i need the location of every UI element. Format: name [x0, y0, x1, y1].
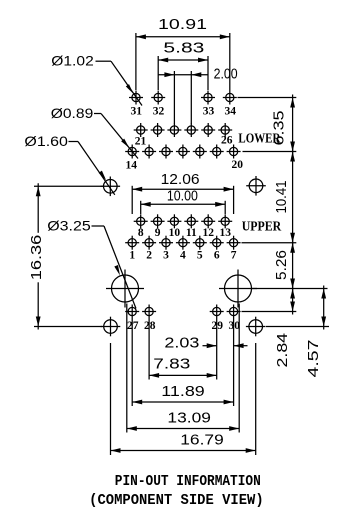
- svg-text:Ø3.25: Ø3.25: [47, 219, 91, 234]
- pin 7 label: [231, 250, 237, 262]
- mounting hole right Ø3.25: [219, 270, 257, 308]
- svg-text:27: 27: [127, 320, 139, 332]
- leader Ø0.89 to pin 14: [94, 114, 138, 159]
- pin 3 (upper row): [159, 236, 173, 250]
- callout Ø1.60 text: [24, 134, 68, 149]
- svg-text:(COMPONENT SIDE VIEW): (COMPONENT SIDE VIEW): [89, 493, 264, 509]
- pin 11 label: [186, 227, 197, 239]
- extension line from pin 30: [242, 311, 297, 313]
- dimension 4.57 (mounting hole to lower side hole): [306, 286, 326, 378]
- svg-text:11.89: 11.89: [161, 384, 205, 400]
- extension line from right mounting hole center: [252, 288, 328, 290]
- pin 30 (LED hole Ø1.02): [227, 305, 241, 319]
- svg-text:14: 14: [125, 160, 137, 172]
- extension line from right mounting hole: [238, 304, 240, 433]
- svg-text:3: 3: [163, 250, 169, 262]
- pin 21 (lower row): [134, 123, 148, 137]
- pin 31 label: [131, 106, 143, 118]
- svg-text:6: 6: [214, 250, 220, 262]
- pin 4 (upper row): [176, 236, 190, 250]
- pin 34 (LED hole Ø1.02): [223, 91, 237, 105]
- svg-text:4: 4: [180, 250, 186, 262]
- pin 28 (LED hole Ø1.02): [142, 305, 156, 319]
- dimension 10.00 (pin8-pin13): [141, 189, 226, 215]
- svg-text:20: 20: [231, 159, 243, 171]
- pin 23 (lower row): [167, 123, 181, 137]
- svg-text:21: 21: [135, 135, 147, 147]
- pin 8 label: [138, 227, 144, 239]
- pin 33 label: [203, 106, 215, 118]
- svg-text:13: 13: [219, 227, 231, 239]
- svg-text:8: 8: [138, 227, 144, 239]
- callout Ø0.89 text: [51, 106, 94, 121]
- pin 14 label: [125, 160, 137, 172]
- pin 18 (lower row): [193, 145, 207, 159]
- pin 34 label: [225, 106, 237, 118]
- svg-text:13.09: 13.09: [167, 410, 211, 426]
- dimension 2.84 (mounting hole to pin30 row): [275, 286, 295, 368]
- dimension 2.03 (pin29-pin30): [164, 336, 247, 352]
- svg-text:32: 32: [153, 106, 165, 118]
- extension line from lower-left side hole: [110, 343, 112, 455]
- svg-text:26: 26: [221, 134, 233, 146]
- pin 2 (upper row): [142, 236, 156, 250]
- mounting hole left Ø3.25: [106, 270, 144, 308]
- pin 10 label: [169, 227, 181, 239]
- svg-text:10.41: 10.41: [274, 181, 290, 214]
- pin 27 (LED hole Ø1.02): [125, 305, 139, 319]
- pin 12 label: [202, 227, 214, 239]
- pin 12 (upper row): [201, 214, 215, 228]
- svg-text:5.83: 5.83: [163, 40, 204, 56]
- svg-text:2.00: 2.00: [214, 67, 238, 83]
- label LOWER: [238, 131, 281, 146]
- dimension 5.26 (pin7 row to mounting hole): [274, 240, 295, 292]
- svg-text:2.03: 2.03: [164, 336, 199, 352]
- pin 29 (LED hole Ø1.02): [210, 305, 224, 319]
- dimension 11.89 (pin27-pin30): [132, 384, 233, 405]
- pin 29 label: [212, 320, 224, 332]
- svg-text:UPPER: UPPER: [242, 219, 282, 234]
- extension line from pin 29: [216, 319, 218, 380]
- pin 19 (lower row): [210, 145, 224, 159]
- pin 7 (upper row): [227, 236, 241, 250]
- svg-text:2.84: 2.84: [275, 333, 291, 368]
- extension line from left mounting hole: [126, 304, 128, 433]
- side hole upper-left Ø1.60: [101, 177, 121, 197]
- svg-text:34: 34: [225, 106, 237, 118]
- pin 5 (upper row): [193, 236, 207, 250]
- svg-text:LOWER: LOWER: [238, 131, 281, 146]
- pin 25 (lower row): [201, 123, 215, 137]
- side hole lower-left: [101, 317, 121, 337]
- dimension 10.91 (pin31-pin34): [136, 17, 230, 91]
- svg-text:29: 29: [212, 320, 224, 332]
- pin 16 (lower row): [159, 145, 173, 159]
- svg-text:30: 30: [228, 320, 240, 332]
- extension line from pin 28: [148, 319, 150, 380]
- dimension 2.00 (pin pitch): [158, 67, 237, 124]
- pin 27 label: [127, 320, 139, 332]
- dimension 5.83 (pin32-pin33): [158, 40, 208, 90]
- svg-text:10: 10: [169, 227, 181, 239]
- pin 13 label: [219, 227, 231, 239]
- pin 10 (upper row): [167, 214, 181, 228]
- extension line from lower-right side hole: [255, 343, 257, 455]
- pin 28 label: [144, 320, 156, 332]
- label UPPER: [242, 219, 282, 234]
- pin 26 (lower row): [218, 123, 232, 137]
- pin 32 (LED hole Ø1.02): [151, 91, 165, 105]
- leader Ø1.02 to pin 31: [96, 61, 143, 105]
- svg-text:5: 5: [197, 250, 203, 262]
- pin 22 (lower row): [151, 123, 165, 137]
- extension line from lower-right side hole: [266, 326, 329, 328]
- svg-text:7.83: 7.83: [153, 356, 190, 372]
- pin 8 (upper row): [134, 214, 148, 228]
- pin 1 label: [129, 250, 135, 262]
- svg-text:PIN-OUT INFORMATION: PIN-OUT INFORMATION: [115, 474, 261, 490]
- caption COMPONENT SIDE VIEW: [89, 493, 264, 509]
- dimension 7.83 (pin28-pin29): [149, 356, 217, 377]
- extension line from pin 20: [243, 151, 297, 153]
- pin 3 label: [163, 250, 169, 262]
- pin 5 label: [197, 250, 203, 262]
- svg-text:10.00: 10.00: [167, 189, 198, 205]
- pin 15 (lower row): [142, 145, 156, 159]
- svg-text:31: 31: [131, 106, 143, 118]
- caption PIN-OUT INFORMATION: [115, 474, 261, 490]
- svg-text:Ø1.60: Ø1.60: [24, 134, 68, 149]
- pin 4 label: [180, 250, 186, 262]
- svg-text:Ø0.89: Ø0.89: [51, 106, 94, 121]
- leader Ø1.60 to upper-left hole: [69, 142, 115, 195]
- pin 6 (upper row): [210, 236, 224, 250]
- pin 32 label: [153, 106, 165, 118]
- pin 9 label: [155, 227, 161, 239]
- svg-text:Ø1.02: Ø1.02: [51, 54, 94, 69]
- side hole lower-right: [246, 317, 266, 337]
- dimension 16.79 (lower side holes): [111, 433, 256, 453]
- svg-text:5.26: 5.26: [274, 250, 290, 280]
- pin 20 (lower row): [227, 145, 241, 159]
- pin 11 (upper row): [184, 214, 198, 228]
- pin 30 label: [228, 320, 240, 332]
- svg-text:12: 12: [202, 227, 214, 239]
- svg-text:12.06: 12.06: [161, 172, 200, 188]
- pin 6 label: [214, 250, 220, 262]
- svg-text:16.36: 16.36: [29, 235, 45, 281]
- dimension 10.41 (pin20 row to pin7 row): [274, 149, 295, 246]
- pin 17 (lower row): [176, 145, 190, 159]
- pin 9 (upper row): [151, 214, 165, 228]
- svg-text:11: 11: [186, 227, 197, 239]
- svg-text:7: 7: [231, 250, 237, 262]
- pin 20 label: [231, 159, 243, 171]
- callout Ø1.02 text: [51, 54, 94, 69]
- pin 26 label: [221, 134, 233, 146]
- extension line from pin 27: [131, 319, 133, 407]
- pin 21 label: [135, 135, 147, 147]
- svg-text:10.91: 10.91: [158, 17, 207, 33]
- pin 31 (LED hole Ø1.02): [129, 91, 143, 105]
- pin 13 (upper row): [218, 214, 232, 228]
- svg-text:28: 28: [144, 320, 156, 332]
- svg-text:1: 1: [129, 250, 135, 262]
- extension line from pin 34: [238, 97, 297, 99]
- svg-text:33: 33: [203, 106, 215, 118]
- pin 1 (upper row): [125, 236, 139, 250]
- pin 33 (LED hole Ø1.02): [201, 91, 215, 105]
- svg-text:16.79: 16.79: [180, 433, 224, 449]
- side hole upper-right Ø1.60: [246, 176, 266, 196]
- extension line from pin 7: [242, 242, 297, 244]
- svg-text:4.57: 4.57: [306, 340, 322, 378]
- svg-text:9: 9: [155, 227, 161, 239]
- callout Ø3.25 text: [47, 219, 91, 234]
- dimension 13.09 (mounting holes): [127, 410, 239, 431]
- pin 24 (lower row): [184, 123, 198, 137]
- pin 2 label: [146, 250, 152, 262]
- extension line from pin 30: [233, 319, 235, 407]
- leader Ø3.25 to left mounting hole: [92, 226, 137, 309]
- pin 14 (lower row): [125, 145, 139, 159]
- svg-text:2: 2: [146, 250, 152, 262]
- dimension 16.36 (side holes vertical): [29, 183, 103, 329]
- dimension 6.35 (pin34 row to pin20 row): [272, 95, 295, 155]
- dimension 12.06 (pin1-pin7): [132, 172, 233, 214]
